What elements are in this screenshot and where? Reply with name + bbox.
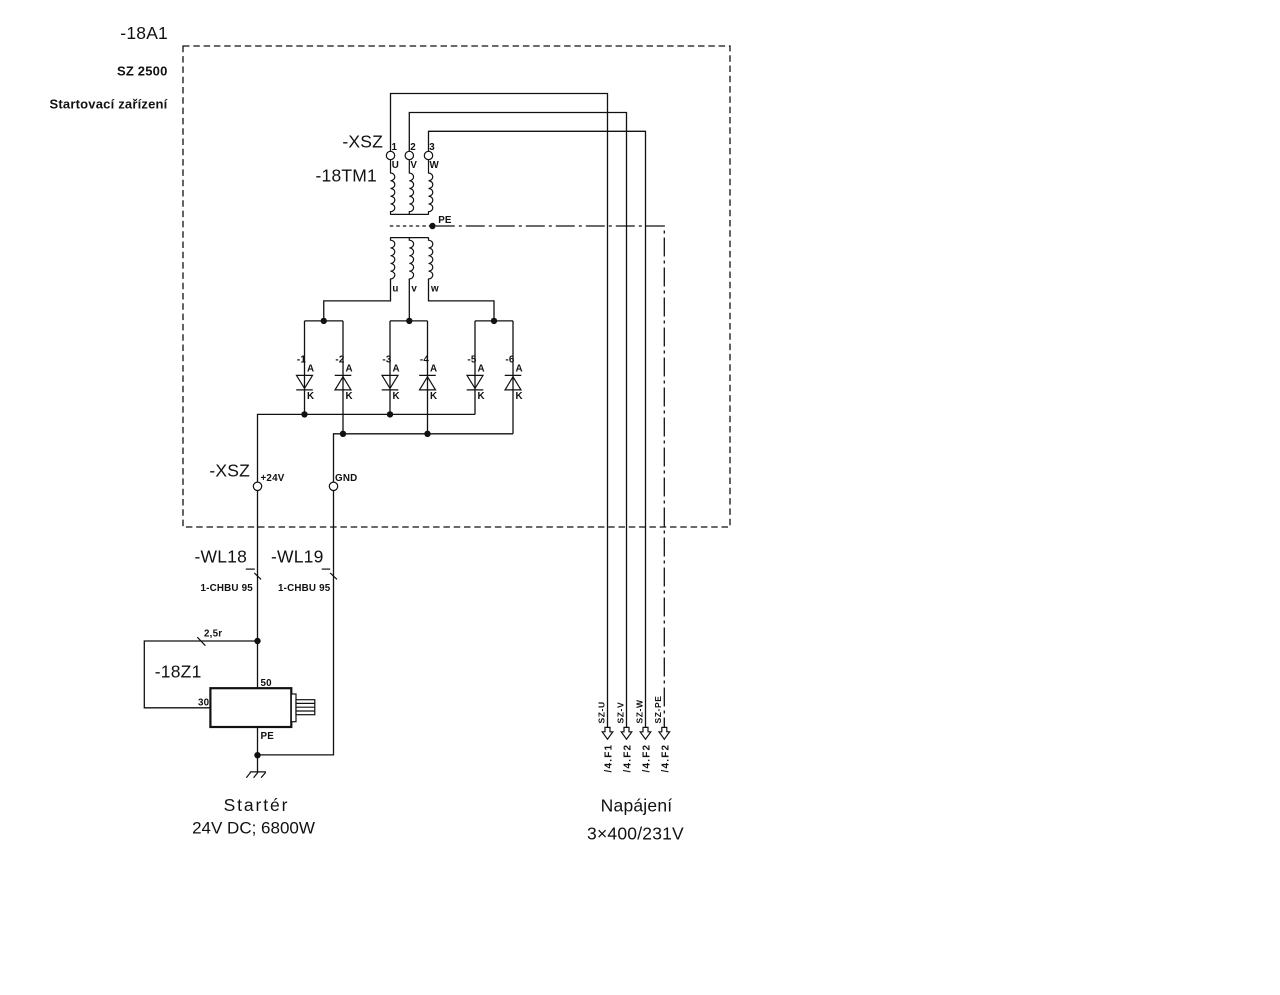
svg-text:30: 30 (198, 698, 210, 709)
svg-text:Startér: Startér (224, 795, 290, 815)
svg-text:K: K (516, 391, 523, 402)
svg-text:50: 50 (261, 678, 273, 689)
svg-text:-5: -5 (467, 355, 476, 366)
svg-text:V: V (410, 160, 417, 171)
svg-text:3: 3 (429, 142, 435, 153)
svg-text:-2: -2 (335, 355, 344, 366)
svg-text:u: u (392, 283, 398, 294)
svg-text:-WL18: -WL18 (194, 547, 247, 567)
svg-text:A: A (430, 363, 437, 374)
svg-text:-6: -6 (505, 355, 514, 366)
svg-text:K: K (478, 391, 485, 402)
svg-text:SZ 2500: SZ 2500 (117, 63, 168, 78)
svg-text:SZ-V: SZ-V (615, 702, 625, 724)
svg-text:K: K (307, 391, 314, 402)
svg-text:SZ-U: SZ-U (596, 701, 606, 723)
svg-text:K: K (346, 391, 353, 402)
svg-text:3×400/231V: 3×400/231V (587, 824, 684, 844)
svg-text:1-CHBU 95: 1-CHBU 95 (278, 583, 331, 594)
svg-text:/4.F2: /4.F2 (661, 744, 672, 773)
svg-text:-18Z1: -18Z1 (155, 662, 202, 682)
svg-text:K: K (430, 391, 437, 402)
svg-text:+24V: +24V (261, 473, 285, 484)
svg-text:-4: -4 (420, 355, 429, 366)
svg-text:-WL19: -WL19 (271, 547, 324, 567)
svg-text:SZ-PE: SZ-PE (653, 695, 663, 723)
svg-text:A: A (393, 363, 400, 374)
svg-text:A: A (307, 363, 314, 374)
svg-text:Napájení: Napájení (601, 796, 673, 816)
svg-text:Startovací zařízení: Startovací zařízení (50, 97, 168, 112)
svg-text:W: W (430, 160, 440, 171)
svg-text:-3: -3 (382, 355, 391, 366)
svg-text:-XSZ: -XSZ (209, 461, 250, 481)
svg-text:-XSZ: -XSZ (342, 132, 383, 152)
svg-text:/4.F2: /4.F2 (642, 744, 653, 773)
svg-text:w: w (430, 283, 439, 294)
svg-text:1-CHBU 95: 1-CHBU 95 (201, 583, 254, 594)
svg-text:-1: -1 (297, 355, 306, 366)
svg-text:v: v (411, 283, 417, 294)
svg-text:-18A1: -18A1 (120, 23, 168, 43)
svg-text:2: 2 (410, 142, 416, 153)
svg-text:24V DC; 6800W: 24V DC; 6800W (192, 819, 315, 838)
svg-text:-18TM1: -18TM1 (316, 166, 378, 186)
svg-text:K: K (393, 391, 400, 402)
svg-text:/4.F2: /4.F2 (623, 744, 634, 773)
svg-text:PE: PE (438, 215, 452, 226)
svg-text:PE: PE (261, 731, 275, 742)
svg-text:1: 1 (392, 142, 398, 153)
svg-text:2,5r: 2,5r (204, 629, 222, 640)
svg-text:A: A (346, 363, 353, 374)
svg-text:GND: GND (335, 473, 357, 484)
svg-text:U: U (392, 160, 399, 171)
svg-text:SZ-W: SZ-W (634, 699, 644, 723)
svg-text:/4.F1: /4.F1 (604, 744, 615, 773)
svg-text:A: A (516, 363, 523, 374)
svg-text:A: A (478, 363, 485, 374)
